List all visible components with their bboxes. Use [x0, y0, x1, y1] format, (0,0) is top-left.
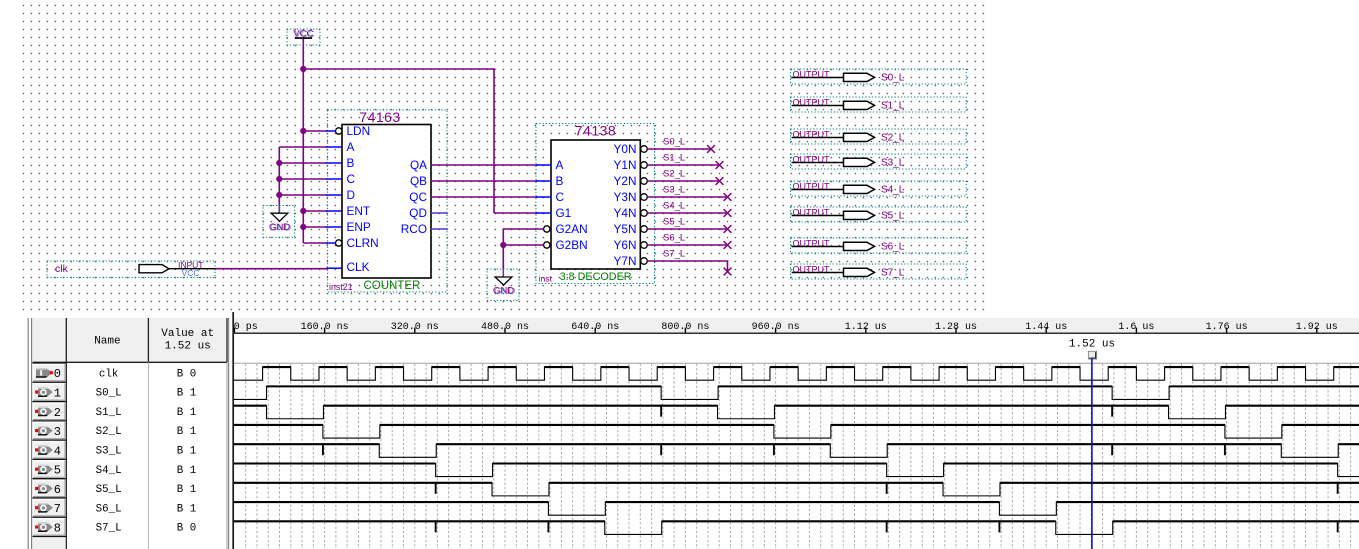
svg-text:B 1: B 1: [177, 407, 196, 419]
wire down to GND: [502, 245, 504, 270]
dangling-end marker S7_L: [724, 268, 732, 276]
wire to B pin: [279, 162, 327, 164]
svg-text:S7_L: S7_L: [663, 249, 685, 260]
row button 2 (S1_L): [33, 402, 67, 421]
svg-text:clk: clk: [55, 263, 69, 275]
74138 output bubbles Y0N-Y7N: [641, 146, 648, 265]
svg-text:3:8 DECODER: 3:8 DECODER: [560, 271, 632, 283]
timescale tick labels: [234, 322, 1338, 333]
wire vertical drop to G1 row: [493, 68, 495, 213]
74163 pin names: [347, 124, 428, 274]
74163 pin CLRN inversion bubble: [336, 240, 342, 246]
svg-text:B 0: B 0: [177, 523, 196, 535]
svg-text:S7_L: S7_L: [96, 523, 122, 535]
power symbol VCC: [287, 29, 320, 45]
wire S2_L from Y pin: [647, 180, 719, 182]
svg-text:B 1: B 1: [177, 484, 196, 496]
74138 pin G2BN inversion bubble: [544, 242, 550, 248]
svg-text:S0_L: S0_L: [96, 388, 122, 400]
dangling-end marker S4_L: [724, 209, 732, 217]
output pin S7_L: [791, 264, 967, 279]
svg-text:inst21: inst21: [329, 282, 353, 292]
svg-text:B: B: [347, 156, 355, 170]
waveform trace S7_L: [234, 520, 1359, 534]
waveform trace S1_L: [234, 405, 1359, 419]
svg-text:S1_L: S1_L: [663, 153, 685, 164]
decoder U2 74138 symbol: [536, 122, 655, 283]
svg-text:S4_L: S4_L: [663, 201, 685, 212]
wire to CLRN pin: [303, 242, 327, 244]
output pin S2_L: [791, 129, 967, 144]
svg-text:S1_L: S1_L: [96, 407, 122, 419]
input pin clk: [47, 260, 215, 278]
svg-text:CLK: CLK: [347, 260, 370, 274]
svg-text:S6_L: S6_L: [96, 503, 122, 515]
svg-text:Y3N: Y3N: [614, 190, 637, 204]
svg-text:CLRN: CLRN: [347, 236, 379, 250]
svg-text:1.52 us: 1.52 us: [1069, 338, 1115, 350]
row button 7 (S6_L): [33, 498, 67, 517]
waveform trace S5_L: [234, 482, 1359, 496]
wire S4_L from Y pin: [647, 212, 727, 214]
wire VCC bus vertical (LDN/ENT/ENP/CLRN): [302, 69, 304, 243]
output pin S4_L: [791, 181, 967, 196]
svg-text:B 0: B 0: [177, 368, 196, 380]
svg-text:RCO: RCO: [401, 222, 427, 236]
wire S1_L from Y pin: [647, 164, 719, 166]
74138 pin G2AN inversion bubble: [544, 226, 550, 232]
waveform trace clk: [234, 367, 1359, 380]
output pin S6_L: [791, 238, 967, 253]
waveform trace S3_L: [234, 443, 1359, 457]
row button 1 (S0_L): [33, 382, 67, 401]
svg-text:Y4N: Y4N: [614, 206, 637, 220]
wire S7_L from Y pin: [647, 261, 727, 272]
dangling-end marker S1_L: [716, 161, 724, 169]
svg-text:S3_L: S3_L: [881, 158, 905, 169]
wire VCC horizontal to decoder G1 column: [303, 68, 494, 70]
svg-text:2: 2: [54, 406, 61, 420]
svg-text:7: 7: [54, 502, 61, 516]
74163 left pin stubs: [326, 131, 342, 268]
svg-text:QD: QD: [409, 206, 427, 220]
svg-text:1.52 us: 1.52 us: [165, 340, 211, 352]
wire clk to CLK pin: [215, 268, 327, 270]
svg-text:S2_L: S2_L: [881, 133, 905, 144]
node junction at LDN row: [300, 128, 306, 134]
waveform panel background: [0, 312, 1359, 549]
74138 pin names: [556, 142, 637, 268]
svg-text:6: 6: [54, 483, 61, 497]
svg-text:0: 0: [54, 367, 61, 381]
svg-text:B 1: B 1: [177, 503, 196, 515]
node junction at D row: [276, 192, 282, 198]
svg-text:G1: G1: [556, 206, 572, 220]
svg-text:ENP: ENP: [347, 220, 371, 234]
row button 9 partial: [33, 537, 66, 549]
wire data bus vertical to GND: [278, 147, 280, 213]
node junction at B row: [276, 160, 282, 166]
svg-text:A: A: [556, 158, 564, 172]
svg-text:S1_L: S1_L: [881, 101, 905, 112]
dangling-end marker S0_L: [707, 145, 715, 153]
wire G2AN to GND net: [503, 229, 543, 245]
waveform vertical grid lines (20 ns): [246, 364, 1351, 549]
row button 8 (S7_L): [33, 517, 67, 536]
svg-text:GND: GND: [269, 222, 290, 233]
svg-text:S3_L: S3_L: [96, 446, 122, 458]
waveform trace S2_L: [234, 425, 1359, 438]
svg-text:74163: 74163: [359, 109, 400, 125]
wire to D pin: [279, 194, 327, 196]
svg-text:COUNTER: COUNTER: [364, 280, 421, 292]
output pin S1_L: [791, 97, 967, 112]
74138 left pin stubs: [536, 165, 551, 213]
output pin S0_L: [791, 69, 967, 84]
svg-text:S6_L: S6_L: [881, 242, 905, 253]
svg-text:S4_L: S4_L: [881, 185, 905, 196]
wire S3_L from Y pin: [647, 196, 727, 198]
svg-text:B 1: B 1: [177, 388, 196, 400]
counter U1 74163 symbol: [328, 109, 447, 292]
wire S0_L from Y pin: [647, 148, 711, 150]
timescale header: [234, 318, 1359, 333]
svg-text:S5_L: S5_L: [881, 211, 905, 222]
svg-text:GND: GND: [493, 285, 514, 296]
wire VCC vertical to junction: [302, 39, 304, 69]
74163 pin LDN inversion bubble: [336, 128, 342, 134]
svg-text:S5_L: S5_L: [96, 484, 122, 496]
svg-text:S0_L: S0_L: [663, 137, 685, 148]
dangling-end marker S2_L: [716, 177, 724, 185]
wire to C pin: [279, 178, 327, 180]
svg-text:S2_L: S2_L: [663, 169, 685, 180]
svg-text:5: 5: [54, 464, 61, 478]
dangling-end marker S6_L: [724, 241, 732, 249]
svg-text:D: D: [347, 188, 356, 202]
row button 3 (S2_L): [33, 421, 67, 440]
waveform trace S0_L: [234, 386, 1359, 399]
svg-text:B 1: B 1: [177, 426, 196, 438]
dangling-end marker S3_L: [724, 193, 732, 201]
row button 6 (S5_L): [33, 479, 67, 498]
svg-text:Y7N: Y7N: [614, 254, 637, 268]
wire S6_L from Y pin: [647, 244, 727, 246]
svg-text:B: B: [556, 174, 564, 188]
svg-text:clk: clk: [99, 368, 118, 380]
time cursor 1.52 us: [1069, 338, 1115, 549]
wire to LDN pin: [303, 130, 327, 132]
schematic editor pane: [0, 0, 1359, 318]
svg-text:Y6N: Y6N: [614, 238, 637, 252]
svg-text:Y5N: Y5N: [614, 222, 637, 236]
svg-text:Value at: Value at: [161, 328, 214, 340]
ground GND (counter data inputs): [263, 206, 295, 238]
svg-text:QA: QA: [410, 158, 427, 172]
row button 0 (clk): [33, 363, 67, 382]
wire to ENT pin: [303, 210, 327, 212]
svg-text:1: 1: [54, 386, 61, 400]
node junction at ENP row: [300, 224, 306, 230]
svg-text:QB: QB: [410, 174, 427, 188]
row button 4 (S3_L): [33, 440, 67, 459]
svg-text:Y1N: Y1N: [614, 158, 637, 172]
node junction VCC branch: [300, 66, 306, 72]
svg-text:C: C: [556, 190, 565, 204]
svg-text:74138: 74138: [575, 122, 616, 138]
svg-text:S6_L: S6_L: [663, 233, 685, 244]
node junction at C row: [276, 176, 282, 182]
wire to A pin: [279, 146, 327, 148]
svg-text:Name: Name: [94, 335, 120, 347]
svg-text:B 1: B 1: [177, 465, 196, 477]
output pin S3_L: [791, 154, 967, 169]
waveform grid separator line: [234, 362, 1359, 364]
dangling-end marker S5_L: [724, 225, 732, 233]
svg-text:4: 4: [54, 444, 61, 458]
wire QB to decoder B: [431, 180, 538, 182]
svg-text:8: 8: [54, 521, 61, 535]
svg-text:S0_L: S0_L: [881, 73, 905, 84]
svg-text:C: C: [347, 172, 356, 186]
wire to ENP pin: [303, 226, 327, 228]
svg-text:3: 3: [54, 425, 61, 439]
svg-text:LDN: LDN: [347, 124, 371, 138]
74163 right pin stubs QD RCO: [431, 213, 447, 229]
waveform trace S4_L: [234, 464, 1359, 477]
svg-text:Y0N: Y0N: [614, 142, 637, 156]
svg-text:VCC: VCC: [182, 268, 200, 278]
svg-text:S2_L: S2_L: [96, 426, 122, 438]
svg-text:S5_L: S5_L: [663, 217, 685, 228]
svg-text:inst: inst: [539, 274, 553, 284]
output pin S5_L: [791, 207, 967, 222]
signal list panel: [28, 312, 233, 549]
wire to G1 pin: [494, 212, 538, 214]
ground GND (decoder enables): [487, 269, 519, 301]
row button 5 (S4_L): [33, 459, 67, 478]
svg-text:0 ps: 0 ps: [234, 322, 258, 333]
svg-text:Y2N: Y2N: [614, 174, 637, 188]
svg-text:S4_L: S4_L: [96, 465, 122, 477]
svg-text:G2AN: G2AN: [556, 222, 588, 236]
wire S5_L from Y pin: [647, 228, 727, 230]
svg-text:S7_L: S7_L: [881, 268, 905, 279]
node junction G2 net: [500, 242, 506, 248]
wire QC to decoder C: [431, 196, 538, 198]
column header Value at 1.52 us: [161, 328, 214, 353]
node junction at ENT row: [300, 208, 306, 214]
svg-text:G2BN: G2BN: [556, 238, 588, 252]
svg-text:QC: QC: [409, 190, 427, 204]
waveform trace S6_L: [234, 502, 1359, 515]
waveform viewer pane: [0, 312, 1359, 549]
svg-text:A: A: [347, 140, 355, 154]
svg-text:ENT: ENT: [347, 204, 371, 218]
wire G2BN to GND net: [503, 244, 543, 246]
svg-text:S3_L: S3_L: [663, 185, 685, 196]
wire QA to decoder A: [431, 164, 538, 166]
svg-text:B 1: B 1: [177, 446, 196, 458]
